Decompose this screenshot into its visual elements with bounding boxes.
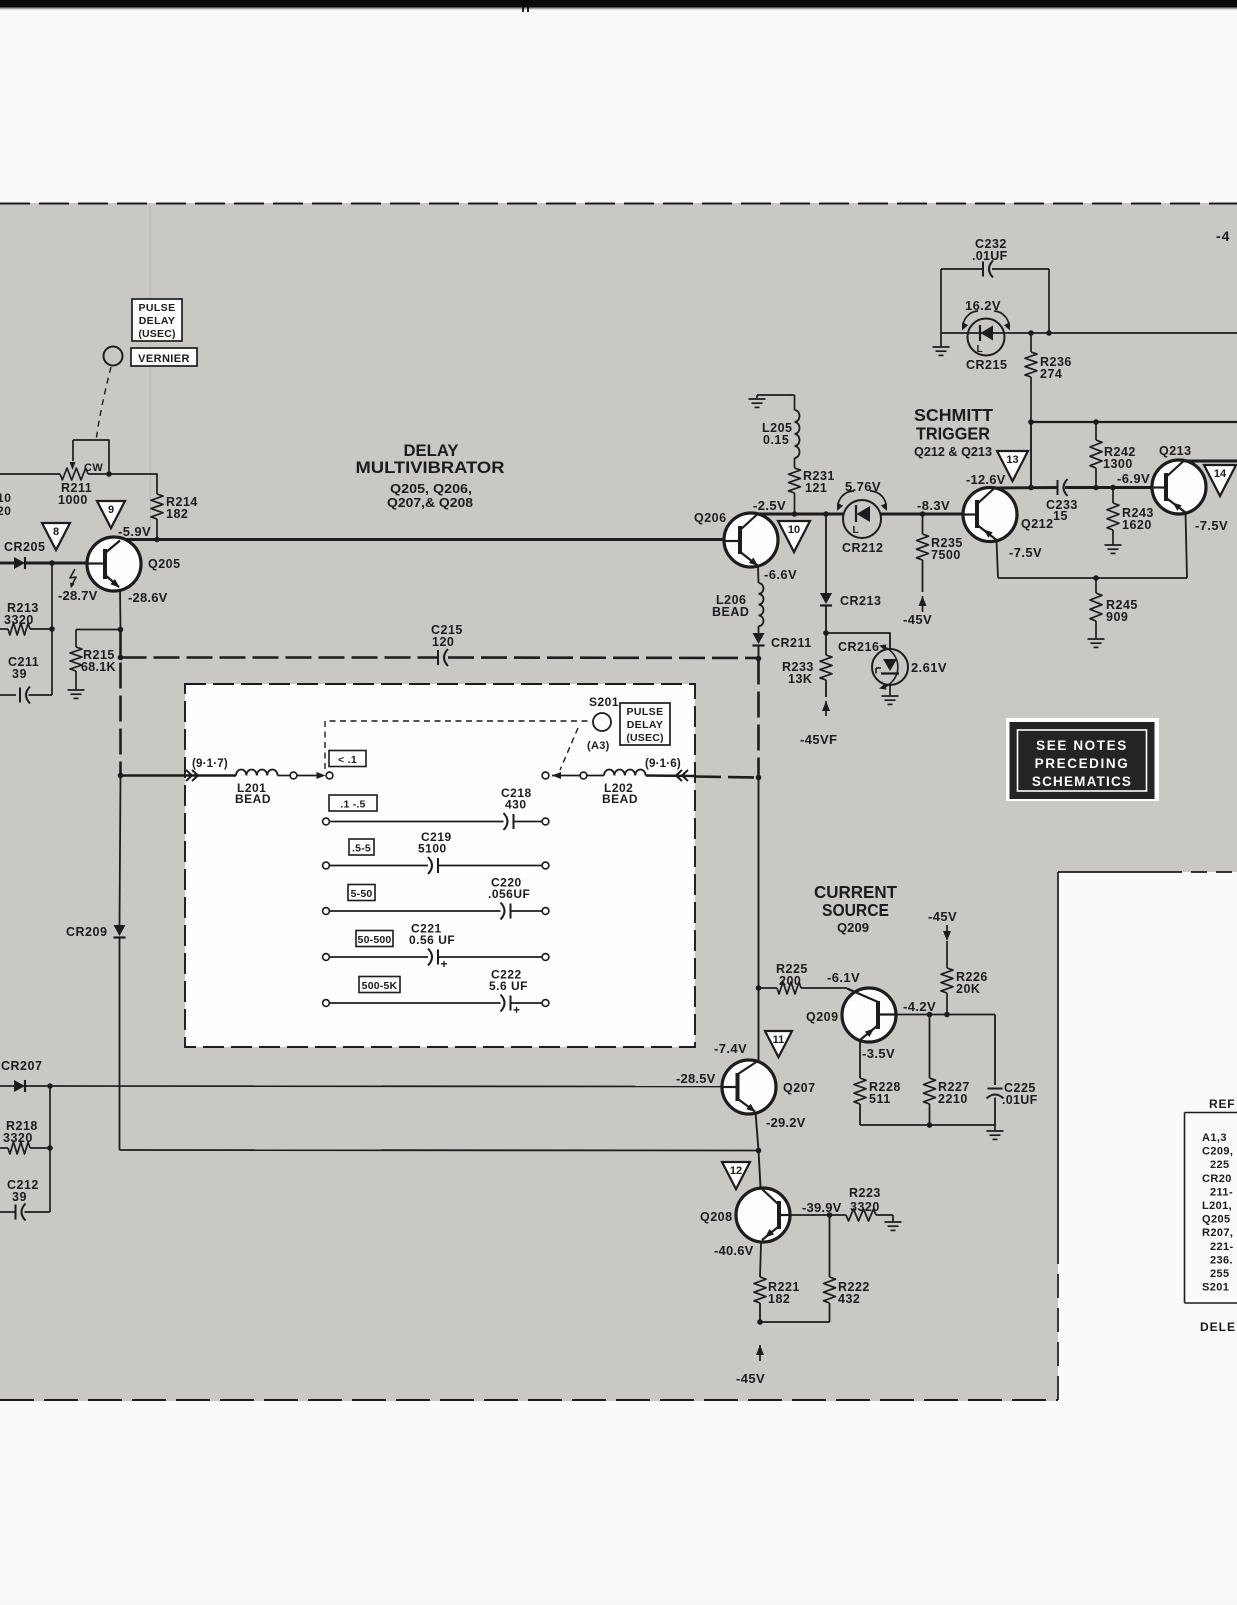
svg-text:PULSE: PULSE: [626, 706, 663, 718]
capacitor C225 .01UF: [988, 1088, 1003, 1090]
resistor R218 3320: [49, 1086, 51, 1148]
svg-text:-3.5V: -3.5V: [862, 1046, 895, 1061]
capacitor C218 430 row .1-.5: [329, 795, 377, 811]
svg-text:-7.5V: -7.5V: [1195, 518, 1228, 533]
power -45VF: [822, 701, 830, 711]
resistor R214 182: [151, 494, 163, 519]
svg-text:Q205: Q205: [148, 557, 181, 571]
wire R211 to R214: [109, 474, 157, 494]
wire to Q207 emitter node: [120, 1149, 759, 1152]
VERNIER knob circle: [104, 347, 123, 366]
resistor R215 68.1K: [75, 630, 77, 648]
diode CR211: [758, 626, 760, 633]
tunnel diode CR212: [843, 500, 881, 538]
svg-text:182: 182: [768, 1292, 790, 1306]
wire bottom rail: [860, 1124, 995, 1126]
front-panel label PULSE DELAY (USEC): [132, 299, 182, 341]
svg-text:5.6 UF: 5.6 UF: [489, 979, 528, 993]
svg-text:500-5K: 500-5K: [362, 980, 398, 992]
capacitor C233 15: [1057, 480, 1059, 495]
svg-text:-7.4V: -7.4V: [714, 1041, 747, 1056]
resistor R226 20K: [946, 941, 948, 968]
resistor R242 1300: [1090, 440, 1102, 468]
svg-text:-28.6V: -28.6V: [128, 590, 168, 605]
transistor Q208: [736, 1188, 790, 1242]
wire CR213 branch: [825, 514, 827, 593]
front-panel label PULSE DELAY (USEC) at S201: [620, 703, 670, 745]
svg-text:-45V: -45V: [736, 1371, 765, 1386]
svg-text:L: L: [852, 525, 858, 536]
resistor R221 182: [760, 1243, 761, 1277]
svg-text:39: 39: [12, 667, 27, 681]
svg-text:2.61V: 2.61V: [911, 660, 947, 675]
svg-text:Q208: Q208: [700, 1210, 733, 1224]
svg-text:-45V: -45V: [928, 909, 957, 924]
svg-text:(USEC): (USEC): [138, 328, 175, 340]
svg-text:DELE: DELE: [1200, 1320, 1236, 1334]
svg-text:CR209: CR209: [66, 925, 107, 939]
numbered node 13: [997, 451, 1028, 481]
svg-text:430: 430: [505, 798, 527, 812]
wire to CR216: [826, 633, 890, 649]
feedback bus with C215: [121, 656, 438, 659]
svg-text:Q205, Q206,: Q205, Q206,: [390, 482, 472, 496]
svg-text:221-: 221-: [1210, 1241, 1234, 1253]
svg-text:SCHEMATICS: SCHEMATICS: [1032, 774, 1132, 789]
svg-text:8: 8: [53, 526, 59, 538]
svg-text:511: 511: [869, 1092, 891, 1106]
numbered node 8: [42, 523, 70, 550]
wire Q213 emitter: [1186, 513, 1188, 579]
numbered node 12: [722, 1162, 750, 1189]
wire bus corner down to Q207: [758, 778, 760, 1061]
svg-text:225: 225: [1210, 1159, 1230, 1171]
ground CR215: [940, 333, 942, 347]
svg-text:-39.9V: -39.9V: [802, 1200, 842, 1215]
svg-text:.5-5: .5-5: [352, 843, 371, 855]
ground R223: [892, 1215, 894, 1222]
inductor L206 BEAD: [757, 566, 760, 583]
wire L202 to bus: [646, 774, 695, 777]
svg-text:BEAD: BEAD: [602, 792, 638, 806]
inductor L201 BEAD: [236, 770, 278, 776]
svg-text:9: 9: [108, 504, 114, 516]
svg-text:15: 15: [1053, 509, 1068, 523]
capacitor C222 5.6UF row 500-5K: [359, 977, 400, 993]
diode CR207: [14, 1080, 25, 1092]
diode CR209: [113, 925, 125, 936]
capacitor C221 0.56UF row 50-500: [356, 931, 393, 947]
svg-text:R207,: R207,: [1202, 1227, 1233, 1239]
wire Q205 emitter: [119, 589, 122, 630]
wire to R215: [76, 629, 121, 631]
capacitor C215 120: [437, 650, 439, 665]
svg-text:.01UF: .01UF: [972, 249, 1008, 263]
svg-text:PULSE: PULSE: [138, 302, 175, 314]
svg-text:10: 10: [788, 524, 800, 536]
svg-text:39: 39: [12, 1190, 27, 1204]
svg-text:-28.7V: -28.7V: [58, 588, 98, 603]
svg-text:(USEC): (USEC): [626, 732, 663, 744]
svg-text:-4.2V: -4.2V: [903, 999, 936, 1014]
svg-text:120: 120: [432, 635, 454, 649]
page border top: [0, 203, 1237, 205]
wire to Q208 base: [759, 1151, 761, 1188]
svg-text:PRECEDING: PRECEDING: [1035, 756, 1130, 771]
transistor Q207: [722, 1060, 776, 1114]
wire Q213 collector out: [1183, 460, 1237, 463]
ground R245: [1088, 638, 1105, 640]
capacitor C232 .01UF: [940, 269, 942, 333]
numbered node 11: [765, 1031, 792, 1057]
ground R243: [1105, 544, 1122, 546]
wire Q207 emitter: [756, 1112, 759, 1151]
svg-text:0.15: 0.15: [763, 433, 789, 447]
diode CR213: [820, 593, 832, 604]
svg-text:MULTIVIBRATOR: MULTIVIBRATOR: [356, 458, 505, 477]
svg-text:SEE NOTES: SEE NOTES: [1036, 738, 1128, 753]
svg-text:Q207: Q207: [783, 1081, 816, 1095]
svg-text:13K: 13K: [788, 672, 812, 686]
svg-text:5100: 5100: [418, 842, 447, 856]
svg-text:Q209: Q209: [806, 1010, 839, 1024]
svg-text:DELAY: DELAY: [627, 719, 664, 731]
transistor Q205: [87, 537, 141, 591]
svg-text:-2.5V: -2.5V: [753, 498, 786, 513]
numbered node 10: [778, 521, 810, 552]
resistor R235 7500: [922, 514, 924, 534]
capacitor C211 39: [0, 694, 16, 696]
wire collector node: [995, 486, 1057, 489]
page border cut corner: [1058, 871, 1166, 873]
notes box SEE NOTES PRECEDING SCHEMATICS: [1006, 718, 1159, 801]
flash mark: [70, 569, 76, 587]
svg-text:R223: R223: [849, 1186, 881, 1200]
svg-text:+: +: [513, 1003, 520, 1017]
wire emitter rail Q208: [760, 1321, 830, 1323]
wire to R211: [0, 473, 60, 475]
wire into L201: [121, 774, 237, 777]
switch S201: [593, 713, 611, 731]
svg-text:200: 200: [779, 974, 801, 988]
svg-text:10: 10: [0, 491, 12, 505]
svg-text:5-50: 5-50: [351, 888, 373, 900]
capacitor C212 39: [49, 1148, 51, 1212]
bus from box edge to CR211 node: [695, 777, 759, 778]
wire top rail: [1031, 421, 1237, 423]
transistor Q213: [1152, 460, 1206, 514]
power -45V Q208: [756, 1345, 764, 1355]
dashed linkage knob to R211: [96, 367, 111, 441]
front-panel label VERNIER: [131, 348, 197, 366]
inductor L205 0.15 with ground: [756, 395, 758, 398]
svg-text:Q205: Q205: [1202, 1214, 1231, 1226]
numbered node 14: [1204, 465, 1236, 496]
wire CR205 node down to C211: [51, 563, 53, 695]
svg-text:909: 909: [1106, 610, 1128, 624]
svg-text:1000: 1000: [58, 493, 88, 507]
svg-text:L: L: [976, 344, 982, 355]
svg-text:.1 -.5: .1 -.5: [340, 799, 365, 811]
transistor Q209: [842, 988, 896, 1042]
svg-text:236.: 236.: [1210, 1254, 1233, 1266]
svg-text:-12.6V: -12.6V: [966, 472, 1006, 487]
svg-text:+: +: [441, 957, 448, 971]
svg-text:-45VF: -45VF: [800, 732, 837, 747]
capacitor C220 .056UF row 5-50: [348, 885, 375, 901]
svg-text:Q213: Q213: [1159, 444, 1192, 458]
svg-text:CW: CW: [84, 462, 103, 474]
svg-text:20: 20: [0, 504, 12, 518]
wire Q205 collector to Q206 base: [120, 538, 724, 541]
svg-text:16.2V: 16.2V: [965, 298, 1001, 313]
svg-text:S201: S201: [589, 695, 619, 709]
svg-text:VERNIER: VERNIER: [138, 353, 190, 365]
wire input CR205: [0, 562, 14, 565]
svg-text:-45V: -45V: [903, 612, 932, 627]
wire Q212 emitter: [997, 540, 999, 578]
svg-text:CR212: CR212: [842, 541, 883, 555]
svg-text:BEAD: BEAD: [235, 792, 271, 806]
resistor R243 1620: [1112, 488, 1114, 504]
svg-text:.056UF: .056UF: [488, 887, 530, 901]
transistor Q206: [724, 513, 778, 567]
svg-text:S201: S201: [1202, 1282, 1229, 1294]
svg-text:1300: 1300: [1103, 457, 1133, 471]
resistor R233 13K: [820, 655, 832, 680]
svg-text:-29.2V: -29.2V: [766, 1115, 806, 1130]
svg-text:432: 432: [838, 1292, 860, 1306]
potentiometer R211 1000: [60, 468, 88, 480]
tunnel diode CR215: [968, 319, 1005, 356]
svg-text:11: 11: [773, 1034, 785, 1046]
svg-text:(9·1·6): (9·1·6): [645, 758, 681, 770]
switch detail box S201: [185, 684, 695, 1047]
junction node: [49, 560, 55, 566]
svg-text:-7.5V: -7.5V: [1009, 545, 1042, 560]
ground CR216: [889, 685, 891, 696]
svg-text:C209,: C209,: [1202, 1146, 1233, 1158]
wire -2.5V node: [757, 513, 843, 516]
svg-text:-6.1V: -6.1V: [827, 970, 860, 985]
svg-text:Q212: Q212: [1021, 517, 1054, 531]
bus junction at CR211: [756, 656, 762, 662]
svg-text:-5.9V: -5.9V: [118, 524, 151, 539]
svg-text:SCHMITT: SCHMITT: [914, 405, 993, 425]
svg-text:-28.5V: -28.5V: [676, 1071, 716, 1086]
resistor R227 2210: [929, 1015, 931, 1079]
svg-text:13: 13: [1006, 454, 1018, 466]
tunnel diode CR216: [872, 649, 908, 685]
svg-text:-6.6V: -6.6V: [764, 567, 797, 582]
svg-text:12: 12: [730, 1165, 742, 1177]
svg-text:.01UF: .01UF: [1002, 1093, 1038, 1107]
svg-text:REF: REF: [1209, 1097, 1235, 1111]
scan artifact top bar: [0, 0, 1237, 8]
svg-text:BEAD: BEAD: [712, 605, 749, 619]
resistor R222 432: [829, 1215, 831, 1277]
svg-text:3320: 3320: [3, 1131, 33, 1145]
svg-text:L201,: L201,: [1202, 1200, 1232, 1212]
svg-text:Q209: Q209: [837, 921, 869, 935]
page border bottom: [0, 1399, 1058, 1401]
wire left edge CR207: [0, 1085, 14, 1087]
svg-text:Q212 & Q213: Q212 & Q213: [914, 445, 992, 459]
svg-text:TRIGGER: TRIGGER: [916, 424, 990, 444]
feedback bus Q205 emitter down: [119, 630, 122, 776]
resistor R228 511: [859, 1040, 861, 1078]
resistor R236 274: [1030, 333, 1032, 352]
svg-text:7500: 7500: [931, 548, 961, 562]
svg-text:CR216: CR216: [838, 640, 879, 654]
svg-text:CR205: CR205: [4, 540, 45, 554]
wire Q212 collector node vertical: [1030, 422, 1032, 487]
wire emitter rail: [998, 577, 1187, 579]
svg-text:CR215: CR215: [966, 358, 1007, 372]
svg-text:CR207: CR207: [1, 1059, 42, 1073]
svg-text:-6.9V: -6.9V: [1117, 471, 1150, 486]
svg-text:A1,3: A1,3: [1202, 1132, 1227, 1144]
inductor L202 BEAD with contact: [542, 772, 549, 779]
svg-text:Q207,& Q208: Q207,& Q208: [387, 496, 473, 510]
svg-text:3320: 3320: [4, 613, 34, 627]
svg-text:121: 121: [805, 481, 827, 495]
svg-text:CR211: CR211: [771, 636, 812, 650]
feedback bus vertical: [757, 659, 760, 778]
resistor R223 3320: [791, 1214, 846, 1216]
svg-text:14: 14: [1214, 468, 1227, 480]
svg-text:0.56 UF: 0.56 UF: [409, 933, 455, 947]
svg-text:255: 255: [1210, 1268, 1230, 1280]
resistor R225 200: [756, 985, 762, 991]
resistor R213 3320: [0, 628, 8, 630]
numbered node 9: [97, 501, 125, 528]
svg-text:211-: 211-: [1210, 1186, 1233, 1198]
svg-text:CR20: CR20: [1202, 1173, 1232, 1185]
transistor Q212: [963, 488, 1017, 542]
resistor R245 909: [1095, 578, 1097, 593]
svg-text:50-500: 50-500: [358, 934, 392, 946]
power -45V: [919, 596, 927, 606]
svg-text:2210: 2210: [938, 1092, 968, 1106]
ground R215: [68, 689, 85, 691]
bus junction: [118, 655, 124, 661]
range box < .1: [329, 751, 366, 767]
dashed linkage to S201: [325, 721, 590, 769]
svg-text:1620: 1620: [1122, 518, 1152, 532]
svg-text:182: 182: [166, 507, 188, 521]
svg-text:Q206: Q206: [694, 511, 727, 525]
svg-text:< .1: < .1: [338, 754, 357, 766]
svg-text:274: 274: [1040, 367, 1062, 381]
ground C225: [994, 1125, 996, 1131]
wire CR215 rail: [941, 332, 1237, 334]
svg-text:(9·1·7): (9·1·7): [192, 758, 228, 770]
svg-text:CURRENT: CURRENT: [814, 882, 897, 902]
svg-text:(A3): (A3): [587, 740, 610, 752]
wire to C225: [994, 1015, 996, 1086]
svg-text:20K: 20K: [956, 982, 980, 996]
svg-text:CR213: CR213: [840, 594, 881, 608]
svg-text:DELAY: DELAY: [139, 315, 176, 327]
svg-text:-40.6V: -40.6V: [714, 1243, 754, 1258]
diode CR205: [14, 557, 25, 569]
wire Q209 collector: [896, 1014, 995, 1016]
svg-text:68.1K: 68.1K: [81, 660, 116, 674]
capacitor C219 5100 row .5-5: [349, 839, 374, 855]
resistor R231 121: [794, 458, 796, 468]
svg-text:SOURCE: SOURCE: [822, 900, 889, 920]
schematic page background: [0, 203, 1237, 1401]
switch contact arm row 1: [278, 775, 290, 777]
wire emitter chain down: [120, 776, 121, 926]
svg-text:-4: -4: [1216, 228, 1230, 244]
svg-text:-8.3V: -8.3V: [917, 498, 950, 513]
svg-text:3320: 3320: [850, 1200, 880, 1214]
